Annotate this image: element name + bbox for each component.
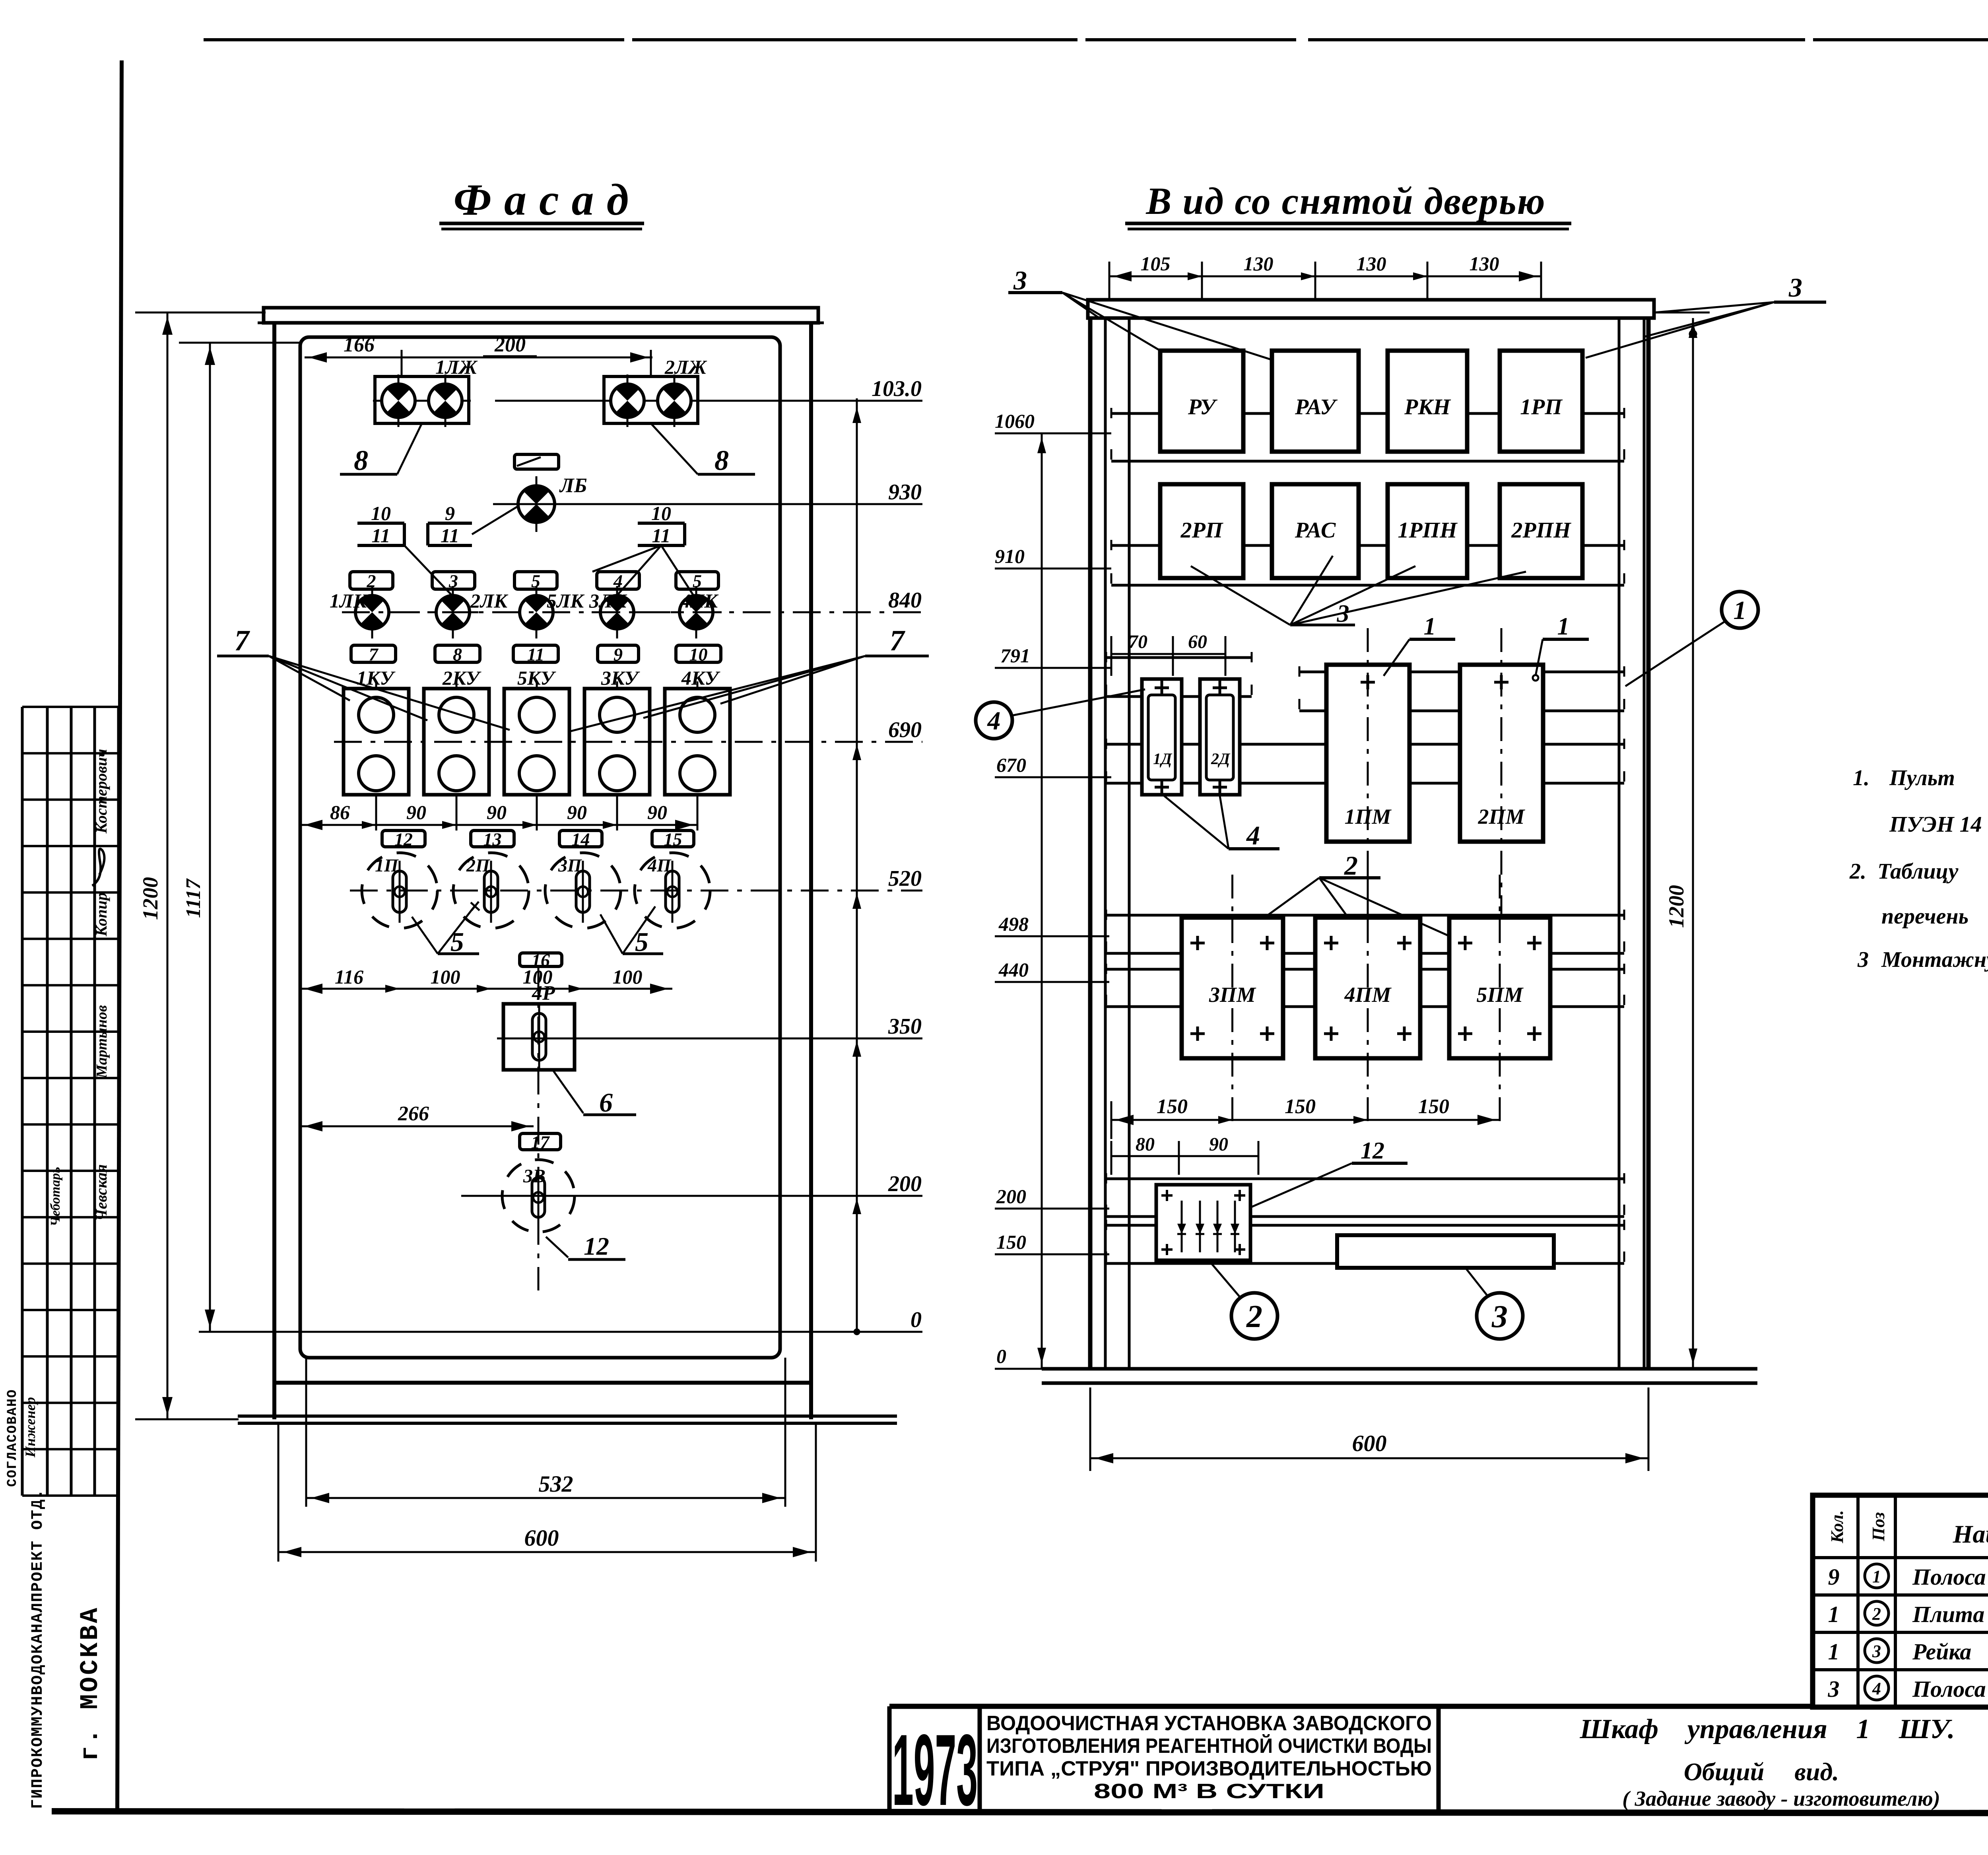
- svg-text:150: 150: [996, 1231, 1026, 1253]
- svg-text:130: 130: [1470, 252, 1499, 275]
- svg-text:60: 60: [1188, 631, 1207, 652]
- svg-text:90: 90: [647, 801, 667, 823]
- svg-text:12: 12: [394, 829, 413, 850]
- svg-text:15: 15: [664, 829, 682, 850]
- svg-text:16: 16: [532, 950, 550, 970]
- svg-text:1060: 1060: [995, 410, 1035, 432]
- svg-text:ПУЭН 14: ПУЭН 14: [1889, 812, 1982, 837]
- svg-text:86: 86: [330, 801, 350, 823]
- svg-text:Поз: Поз: [1869, 1512, 1888, 1542]
- svg-text:Копир: Копир: [92, 893, 110, 937]
- svg-text:150: 150: [1157, 1095, 1188, 1118]
- svg-text:ВОДООЧИСТНАЯ УСТАНОВКА ЗАВОДСК: ВОДООЧИСТНАЯ УСТАНОВКА ЗАВОДСКОГО: [986, 1712, 1432, 1735]
- svg-text:100: 100: [613, 966, 643, 988]
- svg-text:5: 5: [635, 927, 648, 957]
- svg-text:9: 9: [445, 502, 455, 524]
- svg-text:5ПМ: 5ПМ: [1476, 983, 1524, 1007]
- svg-text:9: 9: [613, 644, 623, 665]
- svg-text:3ЛК: 3ЛК: [589, 590, 627, 612]
- svg-text:ЛБ: ЛБ: [559, 474, 587, 497]
- svg-text:Мартынов: Мартынов: [93, 1005, 110, 1079]
- svg-text:1: 1: [1557, 613, 1570, 640]
- svg-text:440: 440: [998, 959, 1029, 981]
- svg-text:1ПМ: 1ПМ: [1344, 805, 1392, 829]
- svg-text:532: 532: [539, 1471, 573, 1497]
- svg-text:перечень: перечень: [1881, 904, 1969, 929]
- svg-text:1973: 1973: [892, 1713, 978, 1827]
- svg-text:1П: 1П: [375, 855, 399, 875]
- svg-text:ИЗГОТОВЛЕНИЯ РЕАГЕНТНОЙ ОЧИСТК: ИЗГОТОВЛЕНИЯ РЕАГЕНТНОЙ ОЧИСТКИ ВОДЫ: [986, 1734, 1432, 1758]
- svg-text:150: 150: [1285, 1095, 1316, 1118]
- svg-text:РАС: РАС: [1295, 518, 1336, 543]
- svg-text:1РПН: 1РПН: [1398, 518, 1458, 543]
- svg-text:116: 116: [335, 966, 363, 988]
- svg-text:1: 1: [1828, 1601, 1840, 1627]
- svg-text:13: 13: [483, 829, 502, 850]
- svg-text:200: 200: [888, 1172, 922, 1196]
- svg-text:130: 130: [1357, 252, 1386, 275]
- svg-text:РКН: РКН: [1404, 395, 1451, 419]
- svg-text:3: 3: [1491, 1299, 1508, 1334]
- svg-text:266: 266: [398, 1102, 429, 1125]
- svg-text:840: 840: [888, 588, 922, 613]
- svg-text:4П: 4П: [647, 855, 672, 875]
- svg-text:4КУ: 4КУ: [681, 667, 720, 689]
- svg-text:8: 8: [714, 444, 729, 476]
- svg-text:12: 12: [584, 1232, 609, 1260]
- svg-text:2ЛЖ: 2ЛЖ: [664, 356, 707, 378]
- svg-text:РАУ: РАУ: [1295, 395, 1338, 419]
- svg-text:Пульт: Пульт: [1889, 766, 1955, 790]
- svg-text:1200: 1200: [138, 877, 162, 920]
- svg-text:1: 1: [1828, 1639, 1840, 1665]
- svg-text:105: 105: [1141, 252, 1171, 275]
- svg-text:РУ: РУ: [1188, 395, 1218, 419]
- svg-text:80: 80: [1136, 1134, 1155, 1155]
- svg-text:1ЛК: 1ЛК: [330, 590, 368, 612]
- svg-text:1ЛЖ: 1ЛЖ: [435, 356, 478, 378]
- svg-text:2РП: 2РП: [1180, 518, 1223, 543]
- svg-text:В ид со снятой дверью: В ид со снятой дверью: [1145, 180, 1545, 222]
- svg-text:70: 70: [1128, 631, 1147, 652]
- svg-text:9: 9: [1828, 1564, 1840, 1590]
- svg-text:166: 166: [344, 334, 375, 356]
- svg-text:150: 150: [1418, 1095, 1449, 1118]
- svg-text:3П: 3П: [558, 855, 582, 875]
- svg-text:2: 2: [1872, 1604, 1881, 1624]
- svg-text:11: 11: [371, 524, 390, 547]
- svg-text:130: 130: [1244, 252, 1274, 275]
- svg-text:Таблицу: Таблицу: [1877, 859, 1959, 884]
- svg-text:200: 200: [996, 1185, 1026, 1207]
- svg-text:3ПМ: 3ПМ: [1209, 983, 1256, 1007]
- svg-text:1.: 1.: [1853, 766, 1870, 790]
- svg-text:8: 8: [453, 644, 462, 665]
- svg-text:2Д: 2Д: [1211, 750, 1231, 768]
- svg-text:10: 10: [371, 502, 391, 524]
- svg-text:200: 200: [494, 334, 526, 356]
- svg-text:4ЛК: 4ЛК: [680, 590, 719, 612]
- svg-text:6: 6: [599, 1087, 613, 1118]
- svg-text:930: 930: [888, 480, 922, 504]
- svg-text:ТИПА „СТРУЯ" ПРОИЗВОДИТЕЛЬНОСТ: ТИПА „СТРУЯ" ПРОИЗВОДИТЕЛЬНОСТЬЮ: [986, 1757, 1432, 1780]
- svg-text:800 М³ В СУТКИ: 800 М³ В СУТКИ: [1094, 1780, 1324, 1803]
- svg-text:2: 2: [1344, 850, 1358, 881]
- svg-text:3В: 3В: [523, 1166, 546, 1187]
- svg-text:4ПМ: 4ПМ: [1344, 983, 1392, 1007]
- svg-text:1: 1: [1424, 613, 1436, 640]
- svg-text:8: 8: [354, 444, 368, 476]
- svg-text:Чевская: Чевская: [92, 1164, 110, 1221]
- svg-text:7: 7: [369, 644, 379, 665]
- svg-text:4: 4: [1872, 1679, 1881, 1698]
- svg-text:3КУ: 3КУ: [601, 667, 640, 689]
- svg-text:90: 90: [487, 801, 507, 823]
- svg-text:1Д: 1Д: [1153, 750, 1173, 768]
- svg-text:670: 670: [996, 754, 1026, 776]
- svg-text:2П: 2П: [466, 855, 490, 875]
- svg-text:690: 690: [888, 718, 922, 742]
- svg-text:90: 90: [1209, 1134, 1228, 1155]
- svg-text:Плита: Плита: [1912, 1601, 1984, 1627]
- svg-text:12: 12: [1361, 1137, 1384, 1164]
- svg-text:СОГЛАСОВАНО: СОГЛАСОВАНО: [5, 1389, 20, 1487]
- svg-text:498: 498: [998, 913, 1029, 935]
- svg-text:2ПМ: 2ПМ: [1477, 805, 1525, 829]
- svg-text:1: 1: [1734, 596, 1747, 625]
- svg-text:Чеботарь: Чеботарь: [48, 1167, 63, 1226]
- svg-text:11: 11: [652, 524, 670, 547]
- svg-text:520: 520: [888, 866, 922, 891]
- svg-text:1РП: 1РП: [1520, 395, 1563, 419]
- svg-text:1: 1: [1872, 1567, 1881, 1586]
- svg-text:Кол.: Кол.: [1827, 1510, 1847, 1544]
- svg-text:г. МОСКВА: г. МОСКВА: [76, 1606, 105, 1761]
- svg-text:3: 3: [1872, 1642, 1881, 1661]
- svg-text:90: 90: [567, 801, 587, 823]
- svg-text:4: 4: [987, 706, 1001, 735]
- svg-text:100: 100: [431, 966, 460, 988]
- svg-text:5: 5: [450, 927, 464, 957]
- svg-text:3: 3: [1857, 947, 1869, 972]
- svg-text:Наименование: Наименование: [1953, 1520, 1988, 1548]
- svg-text:7: 7: [235, 625, 250, 657]
- svg-text:90: 90: [406, 801, 426, 823]
- svg-text:3: 3: [1788, 272, 1802, 303]
- svg-text:4Р: 4Р: [532, 982, 555, 1005]
- svg-text:14: 14: [572, 829, 590, 850]
- svg-text:103.0: 103.0: [872, 376, 922, 401]
- svg-text:Ф а с а д: Ф а с а д: [454, 175, 629, 225]
- svg-text:Общий вид.: Общий вид.: [1684, 1758, 1839, 1786]
- svg-text:5ЛК: 5ЛК: [547, 590, 585, 612]
- svg-text:2ЛК: 2ЛК: [470, 590, 509, 612]
- svg-text:0: 0: [911, 1308, 922, 1332]
- svg-text:10: 10: [689, 644, 708, 665]
- svg-text:3: 3: [1013, 265, 1027, 295]
- svg-text:Монтажную: Монтажную: [1881, 947, 1988, 972]
- svg-text:2.: 2.: [1849, 859, 1866, 884]
- svg-text:2КУ: 2КУ: [442, 667, 481, 689]
- svg-text:( Задание заводу - изготовите: ( Задание заводу - изготовителю): [1622, 1787, 1940, 1810]
- svg-text:2: 2: [1246, 1299, 1262, 1334]
- svg-text:Рейка: Рейка: [1912, 1639, 1971, 1665]
- svg-text:350: 350: [888, 1014, 922, 1039]
- svg-text:1200: 1200: [1664, 885, 1688, 928]
- svg-text:Шкаф управления 1 ШУ.: Шкаф управления 1 ШУ.: [1580, 1714, 1955, 1744]
- svg-text:Костерович: Костерович: [92, 749, 110, 834]
- svg-text:Инженер: Инженер: [22, 1397, 38, 1458]
- svg-text:17: 17: [531, 1132, 550, 1153]
- svg-text:791: 791: [1000, 644, 1030, 667]
- svg-text:910: 910: [995, 545, 1025, 567]
- svg-text:0: 0: [996, 1345, 1006, 1367]
- svg-text:Полоса: Полоса: [1912, 1676, 1986, 1702]
- svg-text:600: 600: [1352, 1430, 1387, 1456]
- svg-text:11: 11: [441, 524, 459, 547]
- svg-text:7: 7: [890, 625, 906, 657]
- svg-text:2РПН: 2РПН: [1511, 518, 1571, 543]
- svg-text:3: 3: [1828, 1676, 1840, 1702]
- svg-text:1117: 1117: [182, 878, 205, 918]
- svg-text:10: 10: [651, 502, 671, 524]
- svg-text:11: 11: [527, 644, 544, 665]
- svg-text:4: 4: [1246, 820, 1260, 850]
- svg-text:600: 600: [524, 1525, 559, 1551]
- svg-text:ГИПРОКОММУНВОДОКАНАЛПРОЕКТ ОТД: ГИПРОКОММУНВОДОКАНАЛПРОЕКТ ОТД.: [29, 1488, 47, 1809]
- svg-text:Полоса: Полоса: [1912, 1564, 1986, 1590]
